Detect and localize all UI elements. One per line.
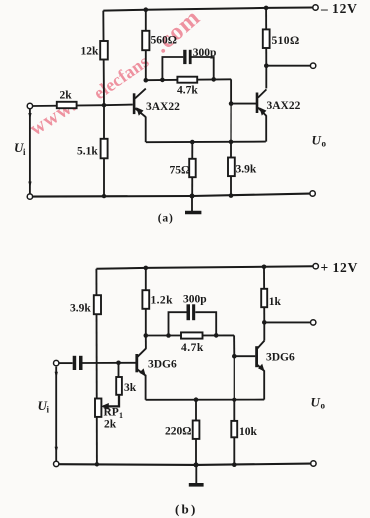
- wire cap to base: [83, 362, 136, 364]
- terminal output bottom (b): [311, 461, 316, 466]
- transistor Q3 emitter arrow (NPN out): [139, 368, 146, 376]
- junction dots (b): [95, 265, 267, 468]
- potentiometer RP1: [95, 399, 101, 417]
- wire 300p loop right: [191, 57, 213, 79]
- ground bar (a): [185, 211, 201, 215]
- resistor 560: [142, 31, 149, 50]
- terminal input bottom (a): [27, 194, 32, 199]
- svg-text:75Ω: 75Ω: [170, 164, 191, 176]
- transistor Q2 emitter arrow: [259, 107, 266, 115]
- wire Q2 collector diag: [258, 89, 266, 97]
- wire bottom rail (a): [30, 194, 310, 197]
- wire Q4 base vertical: [233, 335, 235, 356]
- wire Q3 emitter vertical: [145, 375, 147, 400]
- svg-text:– 12V: – 12V: [320, 1, 358, 16]
- wire output top (b): [264, 321, 310, 323]
- wire Q4 collector diag: [257, 341, 264, 349]
- input arrows (b): [55, 372, 58, 378]
- terminal output top (b): [311, 320, 316, 325]
- wire 75ohm vertical: [191, 142, 193, 196]
- svg-text:3AX22: 3AX22: [267, 100, 301, 112]
- svg-text:(a): (a): [158, 213, 174, 225]
- wire Q4 base horizontal: [234, 355, 255, 357]
- resistor 5.1k: [101, 139, 108, 159]
- wire Q2 base vertical: [230, 79, 232, 103]
- wire top rail (b): [96, 266, 313, 269]
- svg-text:2k: 2k: [104, 418, 117, 430]
- wire 510 vertical: [265, 8, 267, 66]
- terminal input bottom (b): [54, 461, 59, 466]
- wire 1.2k vertical: [145, 268, 147, 336]
- resistor 3.9k (a): [228, 158, 235, 177]
- capacitor 300p (a) plates: [183, 50, 186, 64]
- svg-text:12k: 12k: [81, 46, 100, 58]
- transistor Q1 emitter arrow: [136, 107, 143, 116]
- wire 10k vertical: [233, 400, 235, 465]
- svg-text:220Ω: 220Ω: [165, 425, 191, 437]
- wire 3k drop: [118, 363, 120, 378]
- wire Q4 emitter diag: [257, 365, 264, 371]
- svg-text:o: o: [322, 139, 327, 149]
- terminal input top (b): [54, 360, 59, 365]
- wire 3.9k vertical (a): [230, 142, 232, 196]
- transistor Q4 emitter arrow (NPN out): [258, 364, 265, 372]
- wire input wire to cap: [59, 362, 73, 364]
- wire 300p loop right (b): [195, 312, 216, 335]
- svg-text:3k: 3k: [124, 382, 137, 394]
- resistor 3k: [116, 377, 122, 395]
- svg-text:300p: 300p: [193, 47, 217, 59]
- wire bottom rail (b): [56, 464, 311, 465]
- svg-text:3.9k: 3.9k: [70, 302, 91, 314]
- wire 1k vertical: [263, 267, 265, 323]
- resistor 4.7k (b): [181, 332, 203, 338]
- svg-text:U: U: [312, 133, 322, 148]
- ground bar (b): [189, 483, 204, 487]
- wire Q3 emitter diag: [138, 370, 146, 376]
- wire left vertical (b) 3.9k/RP1: [95, 269, 98, 465]
- terminal +12V: [313, 264, 318, 269]
- svg-text:3AX22: 3AX22: [146, 101, 180, 113]
- wire coupling line y80: [146, 78, 231, 81]
- junction dots (a): [102, 6, 269, 199]
- ground stem (b): [195, 465, 197, 484]
- wire Q1 emitter diag: [135, 108, 146, 117]
- resistor 10k: [231, 421, 237, 437]
- transistor Q2 bar: [256, 93, 259, 114]
- transistor Q1 bar: [133, 93, 136, 114]
- wire emitter line y142: [146, 141, 266, 144]
- wire input left vertical (b): [55, 367, 57, 462]
- resistor 220: [193, 421, 200, 439]
- capacitor 300p (b) plates: [187, 304, 191, 320]
- svg-text:5.1k: 5.1k: [77, 146, 98, 158]
- resistor 4.7k (a): [177, 77, 197, 83]
- svg-text:1.2k: 1.2k: [151, 295, 174, 307]
- wire Q2 collector vertical: [265, 66, 267, 89]
- wire Q2 base horizontal: [231, 103, 256, 105]
- resistor 510: [263, 29, 270, 48]
- svg-text:560Ω: 560Ω: [151, 35, 177, 47]
- wire 3k bottom to wiper: [103, 395, 119, 407]
- resistor 75: [189, 159, 196, 177]
- wire Q1 collector diag: [135, 89, 146, 99]
- wire 560 collector vertical: [145, 10, 147, 81]
- wire input top to base (2k line): [33, 105, 133, 106]
- wire Q1 emitter vertical: [145, 117, 147, 143]
- input arrows (a): [28, 113, 31, 119]
- resistor 1k: [261, 289, 267, 307]
- resistor 1.2k: [142, 290, 149, 309]
- wire Q3 collector diag: [138, 348, 147, 357]
- wire 300p loop left (b): [169, 312, 187, 335]
- wire Q3 collector vert: [145, 336, 147, 349]
- svg-text:3.9k: 3.9k: [236, 164, 257, 176]
- resistor 12k: [100, 41, 108, 60]
- svg-text:+ 12V: + 12V: [321, 260, 359, 275]
- wire feedback line y335: [146, 334, 234, 336]
- ground stem (a): [191, 196, 193, 211]
- wire input left vertical (a): [29, 109, 31, 194]
- svg-text:1k: 1k: [269, 296, 282, 308]
- svg-text:2k: 2k: [60, 89, 73, 101]
- svg-text:o: o: [321, 400, 326, 410]
- transistor Q4 bar: [255, 346, 258, 367]
- resistor 3.9k (b): [94, 295, 101, 314]
- wire top rail (a): [103, 8, 313, 11]
- svg-text:3DG6: 3DG6: [266, 351, 295, 363]
- terminal -12V: [313, 5, 318, 10]
- wire Q4 emitter vertical: [263, 371, 265, 400]
- svg-text:10k: 10k: [239, 426, 258, 438]
- svg-text:300p: 300p: [183, 293, 207, 305]
- wire 220 vertical: [195, 400, 197, 465]
- capacitor input coupling plates: [73, 356, 77, 370]
- RP1 wiper arrow: [101, 403, 109, 410]
- terminal output bottom (a): [310, 191, 315, 196]
- wire emitter rail (b): [146, 399, 265, 401]
- wire Q2 emitter vertical: [265, 115, 267, 141]
- wire Q2 base vertical lower (scan shows link): [230, 104, 232, 142]
- transistor Q3 bar: [135, 354, 138, 372]
- svg-text:4.7k: 4.7k: [177, 84, 198, 96]
- terminal input top (a): [27, 103, 32, 108]
- svg-text:3DG6: 3DG6: [148, 358, 177, 370]
- terminal output top (a): [310, 63, 315, 68]
- wire left bias vertical (a): [102, 11, 105, 197]
- wire 300p loop left: [162, 57, 183, 80]
- wire Q4 collector vertical: [263, 322, 265, 340]
- svg-text:4.7k: 4.7k: [181, 342, 204, 354]
- svg-text:RP: RP: [104, 406, 119, 418]
- wire Q2 emitter diag: [258, 108, 266, 116]
- resistor 2k: [57, 102, 77, 108]
- wire output top (a): [266, 65, 310, 67]
- svg-text:(b): (b): [175, 501, 198, 516]
- svg-text:U: U: [311, 394, 321, 409]
- svg-text:1: 1: [119, 411, 123, 420]
- svg-text:510Ω: 510Ω: [272, 35, 300, 47]
- wire Q4 base vertical lower: [233, 356, 235, 400]
